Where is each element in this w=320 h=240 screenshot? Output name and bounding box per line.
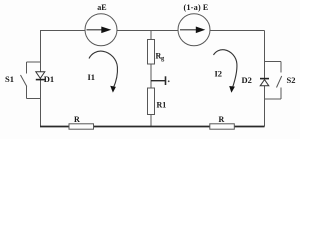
svg-text:R: R — [74, 115, 80, 124]
svg-text:D1: D1 — [44, 74, 54, 84]
svg-text:aE: aE — [97, 3, 106, 12]
svg-text:I2: I2 — [215, 69, 223, 79]
svg-text:(1-a) E: (1-a) E — [184, 3, 209, 12]
svg-text:S2: S2 — [287, 75, 296, 85]
svg-text:D2: D2 — [242, 75, 252, 85]
svg-text:I1: I1 — [88, 72, 96, 82]
svg-text:S1: S1 — [5, 74, 14, 84]
svg-text:R: R — [219, 115, 225, 124]
svg-text:g: g — [161, 55, 165, 62]
svg-text:R1: R1 — [157, 100, 167, 109]
